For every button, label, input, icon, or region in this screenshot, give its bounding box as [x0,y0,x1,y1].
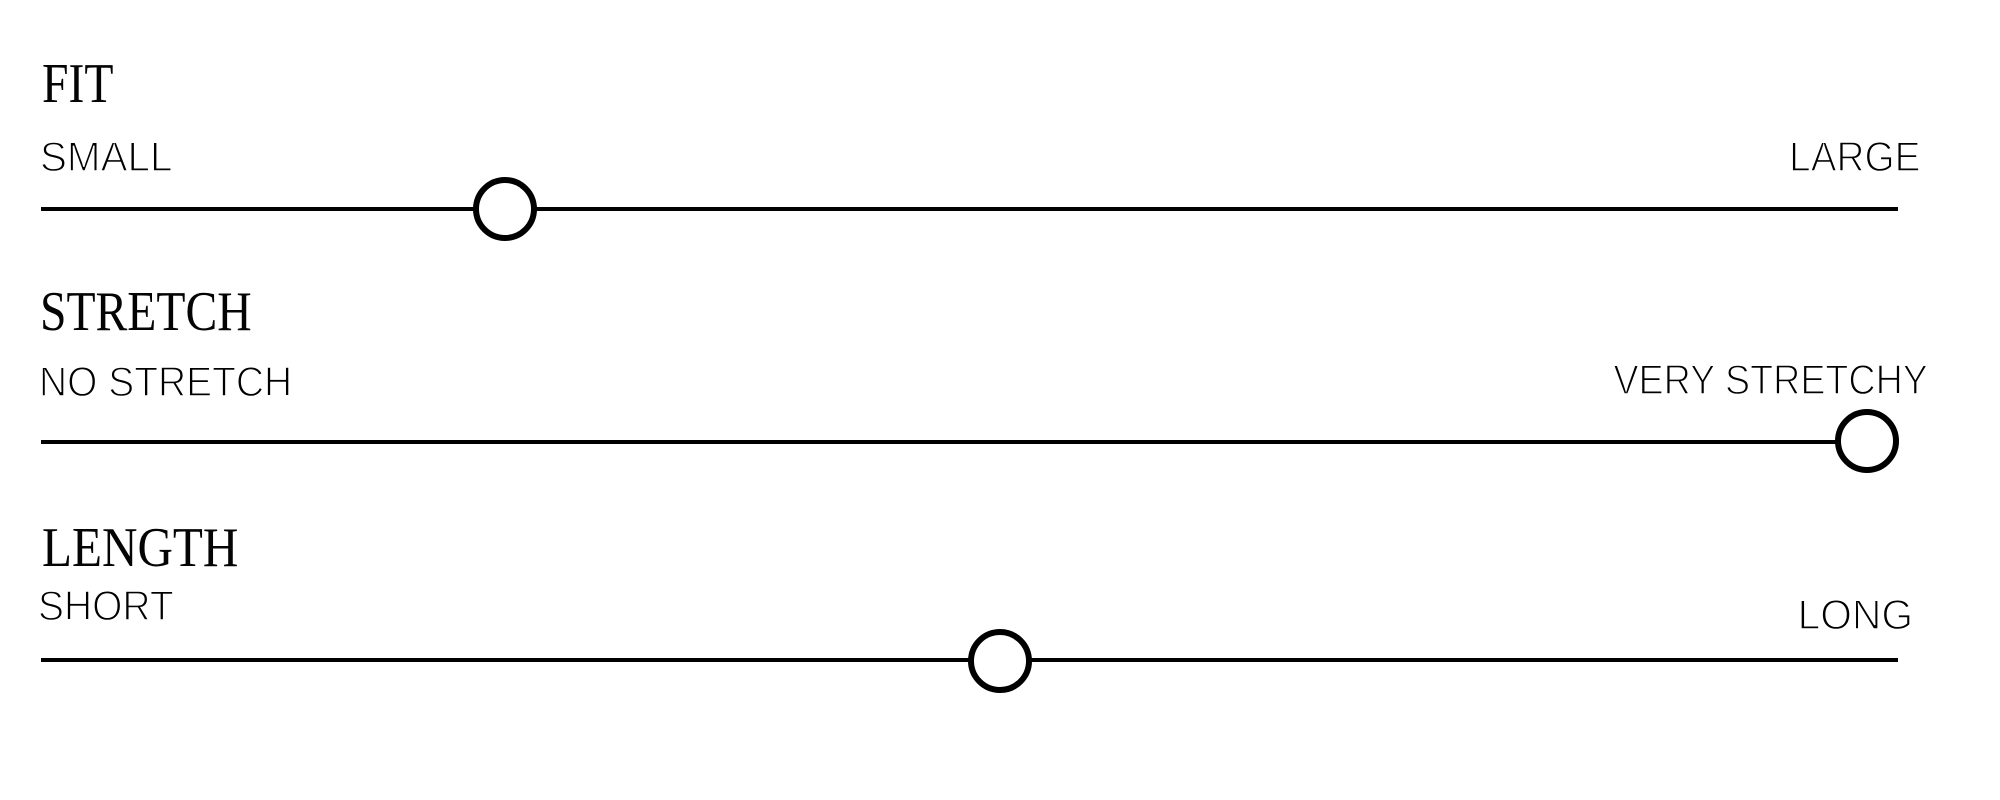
heading LENGTH [42,520,238,576]
heading FIT [42,56,113,112]
label SMALL [40,136,172,178]
slider knob 3 (LENGTH) [968,629,1032,693]
label SHORT [38,585,174,627]
label NO STRETCH [39,361,292,403]
label LONG [1797,594,1912,636]
slider knob 1 (FIT) [473,177,537,241]
slider knob 2 (STRETCH) [1835,409,1899,473]
slider line 1 (FIT) [41,207,1898,211]
heading STRETCH [40,284,252,340]
label VERY STRETCHY [1614,359,1928,401]
slider line 2 (STRETCH) [41,440,1898,444]
slider line 3 (LENGTH) [41,658,1898,662]
label LARGE [1789,136,1920,178]
